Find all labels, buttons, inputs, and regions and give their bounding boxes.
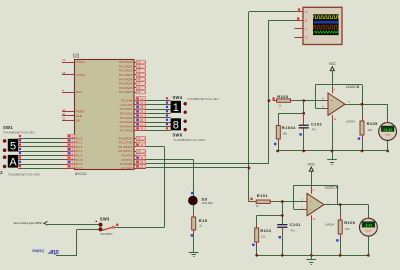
- capacitor C102: [303, 113, 305, 124]
- pin 34 P0.5/AD5 of U1: [134, 83, 146, 85]
- svg-text:U102:A: U102:A: [325, 185, 339, 190]
- state marker R105 bottom: [358, 137, 360, 139]
- svg-text:4: 4: [334, 87, 336, 91]
- SW4 increment button: [184, 102, 187, 105]
- wire SW pin to U1 P1.1: [21, 142, 62, 144]
- svg-text:D3: D3: [202, 196, 208, 201]
- svg-text:R102: R102: [260, 228, 272, 233]
- svg-text:10k: 10k: [367, 128, 372, 132]
- resistor R101: [252, 201, 256, 203]
- svg-text:mVolts: mVolts: [365, 229, 371, 232]
- pin 7 P1.6 of U1: [62, 164, 74, 166]
- svg-text:1k: 1k: [199, 224, 202, 228]
- wire SW pin to U1 P1.5: [21, 159, 62, 161]
- wire R101 to op-amp non-inverting input: [274, 201, 307, 203]
- state marker scope A wire: [298, 8, 300, 10]
- wire U1 P2.0 to SW4: [146, 100, 168, 102]
- pin 32 P0.7/AD7 of U1: [134, 92, 146, 94]
- junction at C102 top branch: [302, 112, 305, 115]
- op-amp U102:B feedback loop wire: [316, 108, 329, 110]
- pin 38 P0.1/AD1 of U1: [134, 66, 146, 68]
- wire generator to SW3 bottom contact: [77, 229, 99, 231]
- svg-text:RST: RST: [76, 90, 82, 94]
- pin 11 P3.1/TXD of U1: [134, 142, 146, 144]
- SW2 increment button: [3, 155, 7, 159]
- svg-text:10k: 10k: [261, 234, 266, 238]
- svg-text:XTAL1: XTAL1: [76, 60, 86, 64]
- svg-text:8: 8: [173, 119, 179, 131]
- wire U1 P2.1 to SW4: [146, 104, 168, 106]
- junction R101 right / C101 branch: [281, 200, 284, 203]
- svg-text:+: +: [309, 200, 311, 204]
- resistor R1044: [278, 113, 280, 121]
- pin 33 P0.6/AD6 of U1: [134, 87, 146, 89]
- scope input pin A: [295, 11, 304, 13]
- svg-text:47u: 47u: [312, 128, 317, 132]
- wire U1 P3.2 to SW3 pole: [146, 146, 165, 148]
- wire U1 P2.3 to SW4: [146, 113, 168, 115]
- state marker R1044 bottom: [274, 143, 276, 145]
- pin 10 P3.0/RXD of U1: [134, 138, 146, 140]
- svg-text:9: 9: [62, 88, 64, 92]
- oscilloscope screen: [313, 14, 339, 35]
- SW1 decrement button: [3, 148, 7, 152]
- thumbswitch SW6 digit display 8: [171, 118, 181, 130]
- wire SW pin to U1 P1.4: [21, 155, 62, 157]
- svg-text:C102: C102: [311, 121, 323, 126]
- pin 26 P2.5/A13 of U1: [134, 122, 146, 124]
- pin 5 P1.4 of U1: [62, 155, 74, 157]
- svg-text:R1044: R1044: [282, 125, 296, 130]
- junction output / R105 / feedback: [361, 103, 364, 106]
- pin 37 P0.2/AD2 of U1: [134, 70, 146, 72]
- state marker R102 bottom: [252, 244, 254, 246]
- scope trace channel C red square wave: [314, 26, 339, 29]
- pin 23 P2.2/A10 of U1: [134, 109, 146, 111]
- scope trace channel D green zigzag: [314, 31, 339, 33]
- pin 35 P0.4/AD4 of U1: [134, 79, 146, 81]
- pin 31 EA of U1: [62, 120, 74, 122]
- wire U1 P3.6 to scope B and R103 (node B): [146, 163, 269, 165]
- svg-text:+2.41: +2.41: [383, 128, 392, 132]
- svg-text:R101: R101: [257, 193, 269, 198]
- svg-text:2: 2: [301, 206, 303, 210]
- pin 1 P1.0 of U1: [62, 138, 74, 140]
- pin 17 P3.7/RD of U1: [134, 168, 146, 170]
- pin 2 P1.1 of U1: [62, 142, 74, 144]
- svg-text:THUMBSWITCH-HEX: THUMBSWITCH-HEX: [3, 131, 35, 135]
- ground rail lower block: [257, 255, 369, 257]
- thumbswitch SW2 digit display A: [8, 155, 18, 168]
- op-amp U102:A feedback loop wire: [294, 209, 307, 211]
- state marker R103 input: [272, 97, 274, 99]
- pin 6 P1.5 of U1: [62, 159, 74, 161]
- wire bar R1044 to C102: [278, 113, 303, 115]
- resistor R106: [340, 205, 342, 216]
- svg-text:THUMBSWITCH-HEX: THUMBSWITCH-HEX: [8, 172, 40, 176]
- switch SW3 top contact: [98, 223, 102, 227]
- junction P3.7 tee: [248, 167, 251, 170]
- wire SW pin to U1 P1.0: [21, 138, 62, 140]
- scope trace channel A yellow square wave: [314, 16, 339, 19]
- pin 18 XTAL2 of U1: [62, 74, 74, 76]
- svg-text:LM324: LM324: [325, 222, 335, 226]
- op-amp U102:A: [307, 193, 324, 215]
- svg-text:U1: U1: [73, 54, 80, 60]
- SW6 decrement button: [184, 128, 187, 131]
- svg-text:1: 1: [173, 102, 179, 114]
- svg-text:SW1: SW1: [3, 125, 13, 130]
- svg-text:SW4: SW4: [173, 95, 183, 100]
- resistor R103: [273, 100, 277, 102]
- state marker on SW3 pole wire: [116, 224, 118, 226]
- svg-text:Zero crossing input 100HZ: Zero crossing input 100HZ: [14, 222, 43, 225]
- ground symbol upper block: [327, 159, 337, 161]
- svg-text:47u: 47u: [290, 228, 295, 232]
- svg-text:R106: R106: [344, 220, 356, 225]
- SW1 increment button: [3, 139, 7, 143]
- resistor R15: [193, 213, 195, 217]
- wire U1 P2.2 to SW4: [146, 109, 168, 111]
- wire D3 to R15: [193, 205, 195, 217]
- svg-text:11: 11: [313, 217, 316, 221]
- wire SW pin to U1 P1.2: [21, 146, 62, 148]
- svg-text:7: 7: [348, 100, 350, 104]
- resistor R102: [256, 216, 258, 225]
- voltmeter lower: [368, 236, 370, 255]
- wire junction down to C102/R1044 bar: [303, 101, 305, 114]
- pin 39 P0.0/AD0 of U1: [134, 62, 146, 64]
- svg-text:31: 31: [62, 116, 66, 120]
- wire U1 P2.6 to SW6: [146, 126, 168, 128]
- svg-text:18: 18: [62, 71, 66, 75]
- svg-text:LM324: LM324: [346, 119, 356, 123]
- pin 28 P2.7/A15 of U1: [134, 130, 146, 132]
- svg-text:SW-SPDT: SW-SPDT: [100, 232, 113, 236]
- pin 19 XTAL1 of U1: [62, 62, 74, 64]
- wire U1 P2.4 to SW6: [146, 117, 168, 119]
- SW4 decrement button: [184, 111, 187, 114]
- state marker C101 bottom: [279, 236, 281, 238]
- wire bar R102 to C101 branch: [257, 215, 283, 217]
- svg-text:LED-DEF: LED-DEF: [202, 201, 214, 205]
- svg-text:VCC: VCC: [329, 62, 337, 66]
- svg-text:10k: 10k: [345, 227, 350, 231]
- capacitor C101: [282, 223, 284, 225]
- switch SW3 pole and lever: [112, 226, 114, 228]
- op-amp ground wire lower: [311, 221, 313, 255]
- pin 29 PSEN of U1: [62, 111, 74, 113]
- svg-text:P3.7/RD: P3.7/RD: [121, 166, 133, 170]
- svg-text:4: 4: [313, 188, 315, 192]
- wire R15 to ground: [193, 234, 195, 252]
- wire U1 P3.7 to scope A and R101 (node A): [146, 167, 249, 169]
- svg-text:R103: R103: [277, 94, 289, 99]
- junction R103 tap: [268, 99, 271, 102]
- microcontroller U1 80C51 body: [75, 60, 135, 170]
- wire SW pin to U1 P1.7: [21, 168, 62, 170]
- svg-text:SW2: SW2: [0, 170, 3, 175]
- pin 15 P3.5/T1 of U1: [134, 159, 146, 161]
- svg-text:R105: R105: [367, 121, 379, 126]
- pin 24 P2.3/A11 of U1: [134, 113, 146, 115]
- svg-text:10k: 10k: [282, 132, 287, 136]
- op-amp U102:B: [328, 93, 345, 115]
- thumbswitch SW4 digit display 1: [171, 101, 181, 113]
- state marker on D3 wire: [191, 192, 193, 194]
- wire U1 P2.5 to SW6: [146, 122, 168, 124]
- pin 14 P3.4/T0 of U1: [134, 155, 146, 157]
- state marker C102 bottom: [299, 133, 301, 135]
- svg-text:-2.41: -2.41: [364, 224, 372, 228]
- wire terminal to SW3 top contact: [48, 224, 99, 226]
- ground symbol lower block: [307, 259, 317, 261]
- svg-text:5: 5: [10, 140, 16, 152]
- svg-text:SW3: SW3: [100, 217, 110, 222]
- ground symbol below R15: [189, 252, 199, 254]
- wire U1 P2.7 to SW6: [146, 130, 168, 132]
- svg-text:XTAL2: XTAL2: [76, 73, 86, 77]
- wire R103 to op-amp non-inverting input: [295, 100, 328, 102]
- svg-text:P0.7/AD7: P0.7/AD7: [119, 90, 133, 94]
- thumbswitch SW1 digit display 5: [8, 139, 18, 152]
- state marker scope B wire: [297, 17, 299, 19]
- switch SW3 bottom contact: [98, 227, 102, 231]
- svg-text:6: 6: [322, 104, 324, 108]
- wire SW pin to U1 P1.3: [21, 151, 62, 153]
- pin 21 P2.0/A8 of U1: [134, 100, 146, 102]
- pin 36 P0.3/AD3 of U1: [134, 74, 146, 76]
- svg-text:A: A: [9, 156, 17, 168]
- oscilloscope body: [303, 7, 342, 44]
- svg-text:R15: R15: [199, 218, 208, 223]
- svg-text:A: A: [305, 10, 307, 14]
- svg-text:11: 11: [334, 117, 337, 121]
- scope input pin B: [295, 20, 304, 22]
- svg-text:P1.7: P1.7: [76, 166, 83, 170]
- wire junction down to C101: [282, 202, 284, 225]
- svg-text:1k: 1k: [256, 204, 259, 208]
- pin 30 ALE of U1: [62, 115, 74, 117]
- svg-text:C101: C101: [290, 222, 302, 227]
- pin 16 P3.6/WR of U1: [134, 164, 146, 166]
- svg-text:80C51: 80C51: [75, 171, 88, 176]
- svg-text:U102:B: U102:B: [346, 84, 360, 89]
- pin 22 P2.1/A9 of U1: [134, 104, 146, 106]
- junction output / R106 / feedback lower: [339, 203, 342, 206]
- pin 12 P3.2/INT0 of U1: [134, 146, 146, 148]
- svg-text:mVolts: mVolts: [385, 134, 391, 137]
- svg-text:P2.7/A15: P2.7/A15: [120, 129, 133, 133]
- pin 3 P1.2 of U1: [62, 146, 74, 148]
- state marker R101 input: [250, 198, 252, 200]
- state marker R106 bottom: [336, 239, 338, 241]
- svg-text:SW6: SW6: [173, 133, 183, 138]
- svg-text:VCC: VCC: [308, 163, 316, 167]
- svg-text:THUMBSWITCH-HEX: THUMBSWITCH-HEX: [174, 138, 206, 142]
- svg-text:1k: 1k: [278, 104, 281, 108]
- ground rail upper block: [278, 150, 388, 152]
- wire op-amp output to voltmeter: [345, 104, 388, 106]
- state marker R15 bottom: [191, 234, 193, 236]
- svg-text:−: −: [330, 107, 332, 111]
- pin 8 P1.7 of U1: [62, 168, 74, 170]
- scope trace channel B blue wave: [314, 21, 339, 24]
- wire SW pin to U1 P1.6: [21, 164, 62, 166]
- svg-text:SW(NC): SW(NC): [32, 249, 44, 253]
- resistor R105: [362, 104, 364, 117]
- wire op-amp output to voltmeter lower: [324, 204, 368, 206]
- junction R103 right / C102 branch: [302, 99, 305, 102]
- pin 13 P3.3/INT1 of U1: [134, 151, 146, 153]
- svg-text:THUMBSWITCH-HEX: THUMBSWITCH-HEX: [187, 97, 219, 101]
- voltmeter upper: [387, 140, 389, 151]
- svg-text:−: −: [309, 208, 311, 212]
- svg-text:B: B: [305, 18, 307, 22]
- svg-text:19: 19: [62, 58, 66, 62]
- scope input pin D: [295, 37, 304, 39]
- scope input pin C: [295, 28, 304, 30]
- pin 27 P2.6/A14 of U1: [134, 126, 146, 128]
- SW2 decrement button: [3, 165, 7, 169]
- LED D3: [193, 195, 195, 197]
- op-amp ground wire and junction: [332, 121, 334, 151]
- SW6 increment button: [184, 120, 187, 123]
- pin 9 RST of U1: [62, 92, 74, 94]
- wire U1 P3.5 to LED D3: [146, 159, 194, 161]
- pin 4 P1.3 of U1: [62, 151, 74, 153]
- svg-text:+: +: [330, 99, 332, 103]
- pin 25 P2.4/A12 of U1: [134, 117, 146, 119]
